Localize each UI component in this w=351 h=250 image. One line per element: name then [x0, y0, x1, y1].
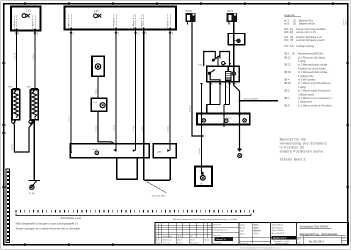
svg-text:Blatt: Blatt	[297, 237, 301, 240]
svg-text:Name: Name	[253, 225, 258, 227]
terminal box X3	[228, 33, 244, 44]
svg-text:Gezeichn.: Gezeichn.	[213, 235, 222, 237]
K1 switch lever	[213, 55, 221, 66]
svg-text:1: 1	[73, 32, 75, 35]
F1 stub	[187, 22, 189, 25]
title block frame	[155, 223, 348, 245]
svg-text:zt 1 Masseschutzte schale :: zt 1 Masseschutzte schale :	[298, 71, 329, 74]
svg-text:zt 7 Masse si and Funktionen: zt 7 Masse si and Funktionen :	[298, 82, 332, 85]
revision table	[155, 223, 348, 245]
svg-text:andere Positionen siehe: andere Positionen siehe	[280, 150, 323, 154]
svg-text:Anlagen Vertrieb: Anlagen Vertrieb	[275, 242, 288, 245]
svg-text:1 u4: 1 u4	[93, 102, 98, 104]
svg-text:H6: H6	[290, 39, 294, 42]
ground terminal G2	[238, 149, 242, 157]
fuse F1	[185, 13, 195, 22]
svg-text:86: 86	[211, 84, 213, 86]
harness separation dotted line	[16, 210, 254, 213]
svg-text:1 E1: 1 E1	[26, 10, 32, 13]
connector X2 box	[153, 144, 176, 158]
motor M1 symbol	[200, 167, 205, 181]
svg-text:0.5 bl: 0.5 bl	[168, 126, 170, 131]
connector strip X4	[197, 114, 250, 125]
svg-text:31 br: 31 br	[32, 21, 35, 26]
svg-text:P14: P14	[284, 39, 289, 42]
control unit A1 box	[11, 7, 41, 31]
pin dots A2	[70, 28, 171, 30]
svg-text:2: 2	[118, 32, 120, 35]
wire F2 down	[233, 22, 235, 72]
svg-text:Ers. für: Ers. für	[177, 243, 183, 245]
svg-text:Änderung: Änderung	[163, 239, 171, 242]
svg-text:5A 30: 5A 30	[186, 10, 193, 13]
svg-text:Norm 21.05.01: Norm 21.05.01	[272, 232, 285, 235]
svg-text:Gepr.: Gepr.	[240, 231, 245, 233]
svg-text:85: 85	[221, 84, 223, 86]
svg-text:Nicht dargestellte Leitungen u: Nicht dargestellte Leitungen u nach Leit…	[16, 222, 78, 226]
wire loop X1 lower	[117, 158, 138, 180]
wire K1 pin5 to ground	[234, 82, 240, 149]
svg-text:4: 4	[146, 32, 148, 35]
svg-text:Schmid: Schmid	[253, 230, 259, 232]
svg-text:0.5 ws: 0.5 ws	[96, 125, 98, 131]
relay feed wire	[201, 83, 203, 167]
svg-text:a: a	[156, 236, 157, 238]
sensor B1 symbol	[95, 64, 100, 69]
svg-text:87: 87	[235, 84, 237, 86]
left terminal strip	[6, 169, 10, 243]
svg-text:Datum: Datum	[205, 239, 211, 242]
svg-text:SB 38: SB 38	[284, 71, 291, 74]
svg-text:Masseleitung MIDI Rot: Masseleitung MIDI Rot	[298, 53, 324, 56]
svg-text:1.5 br: 1.5 br	[141, 126, 143, 131]
svg-text:30: 30	[293, 22, 296, 25]
svg-text:Tag 14.05.01: Tag 14.05.01	[272, 225, 283, 227]
sensor B2 symbol	[100, 103, 105, 108]
svg-text:0.75 sw: 0.75 sw	[14, 53, 16, 60]
heater resistor R1	[12, 88, 20, 120]
svg-text:9b 002 98 0: 9b 002 98 0	[309, 240, 324, 244]
pin leaders A2	[69, 15, 170, 29]
svg-text:SB 21: SB 21	[284, 64, 291, 67]
heater resistor R2	[31, 88, 39, 120]
svg-text:Ersatz Leitungen an s zuletzt: Ersatz Leitungen an s zuletzt Klemmen be…	[16, 227, 81, 231]
svg-text:8.8: 8.8	[290, 45, 294, 48]
svg-text:Schaltplan 9017642A: Schaltplan 9017642A	[300, 225, 329, 229]
ground bolt W1	[28, 180, 40, 189]
svg-text:zt 5 Wb schalte :: zt 5 Wb schalte :	[298, 79, 317, 82]
feed line 30	[240, 100, 279, 102]
svg-text:1 A5: 1 A5	[94, 9, 100, 13]
svg-text:Bearb.: Bearb.	[240, 228, 246, 230]
pin leader A1.1	[14, 16, 16, 29]
relay K1 body	[207, 66, 240, 82]
svg-text:1 Modell abnahme: 1 Modell abnahme	[213, 229, 228, 231]
svg-text:zt 1 Masse si ein Funktionen: zt 1 Masse si ein Funktionen u :	[298, 97, 333, 100]
svg-text:Urspr.: Urspr.	[156, 243, 161, 245]
svg-text:SB 5: SB 5	[284, 90, 290, 93]
svg-text:Zust: Zust	[156, 239, 160, 242]
svg-text:Datum: Datum	[177, 239, 183, 242]
svg-text:zt 1 Masseschutzte schale :: zt 1 Masseschutzte schale :	[298, 64, 329, 67]
sensor B2 box	[91, 98, 106, 111]
svg-text:Huber: Huber	[253, 226, 259, 229]
wire loop K1 pins 1-2	[207, 82, 220, 114]
svg-text:1 adrig: 1 adrig	[298, 60, 306, 63]
svg-text:Bei nicht abweichend ein 2-far: Bei nicht abweichend ein 2-farbige Leitu…	[173, 218, 238, 221]
svg-text:2: 2	[37, 33, 39, 36]
svg-text:u Masse punkt: u Masse punkt	[298, 93, 315, 96]
svg-text:SB 7: SB 7	[284, 97, 290, 100]
X4 terminal circles	[202, 119, 246, 123]
wire A1.2 to R2	[34, 31, 36, 90]
svg-text:30: 30	[226, 87, 228, 89]
svg-text:Kontr. Blatt: Kontr. Blatt	[213, 242, 222, 245]
svg-text:Legende: Legende	[284, 13, 295, 17]
svg-text:1R2: 1R2	[27, 86, 32, 88]
svg-text:1 A5: 1 A5	[157, 150, 162, 153]
motor M1 box	[195, 167, 212, 187]
wire loop K1 pins 3-4	[224, 82, 230, 127]
wire loop R1 bottom	[14, 122, 34, 152]
centre cells	[212, 223, 270, 245]
svg-text:Kargl: Kargl	[253, 232, 258, 235]
wire A2.4 through X1	[143, 30, 145, 158]
svg-text:Gepr 16.05.01: Gepr 16.05.01	[272, 229, 284, 232]
svg-text:AT3: AT3	[284, 45, 289, 48]
svg-text:Norm: Norm	[240, 234, 245, 236]
svg-text:10.05.: 10.05.	[177, 236, 182, 238]
wire A1.1 to R1	[16, 31, 18, 90]
svg-text:1 Bl.: 1 Bl.	[297, 242, 301, 244]
svg-text:Name: Name	[190, 240, 195, 242]
svg-text:WEBASTO: WEBASTO	[273, 237, 287, 240]
K1 coil	[226, 66, 232, 82]
logo bar	[272, 236, 297, 239]
svg-text:30 rt: 30 rt	[68, 22, 71, 26]
lamp E2 symbol	[94, 14, 102, 18]
relay K1 pin labels	[211, 84, 237, 89]
svg-text:1 8: 1 8	[343, 22, 347, 25]
K1 lamp terminal	[232, 72, 235, 82]
fuse F2	[227, 13, 237, 22]
svg-text:0.75 br: 0.75 br	[11, 144, 14, 150]
svg-text:2 adrige Leitung: 2 adrige Leitung	[296, 45, 315, 48]
svg-text:30-9017-642-A-01 F 297x210: 30-9017-642-A-01 F 297x210 Blatt 1 von 1	[240, 246, 282, 249]
svg-text:Werkstoff: Werkstoff	[213, 223, 221, 226]
connector X1 box	[70, 144, 149, 158]
svg-text:0.5 ge: 0.5 ge	[95, 89, 97, 94]
svg-text:0.75 br: 0.75 br	[33, 53, 35, 60]
control unit A2 box	[65, 7, 177, 30]
wire A2.2 to X1	[115, 30, 117, 152]
svg-text:31 M8: 31 M8	[29, 193, 36, 195]
svg-text:zt 7 Masse schalt Funktionen: zt 7 Masse schalt Funktionen :	[298, 90, 332, 93]
lamp E1 symbol	[22, 14, 30, 18]
svg-text:Lampe mit F 1 15: Lampe mit F 1 15	[296, 31, 316, 34]
wire loop X2 lower	[144, 158, 170, 180]
svg-text:SB 4: SB 4	[284, 79, 290, 82]
svg-text:Leuchte Schraube a swth: Leuchte Schraube a swth	[296, 39, 325, 42]
K1 contact	[208, 70, 220, 82]
svg-text:1 adrig: 1 adrig	[298, 86, 306, 89]
svg-text:Batterie Minus: Batterie Minus	[299, 22, 316, 25]
svg-text:SB 9: SB 9	[284, 104, 290, 107]
wire A2.1 to X1	[70, 30, 72, 153]
bracket line	[16, 214, 251, 216]
svg-text:30 2a 5b 5020: 30 2a 5b 5020	[152, 195, 167, 197]
svg-text:0.75 sw: 0.75 sw	[190, 105, 192, 112]
svg-text:1: 1	[18, 33, 20, 36]
svg-text:3: 3	[137, 32, 139, 35]
svg-text:Funktion su Umris schau: Funktion su Umris schau	[298, 67, 326, 70]
wire R2 to ground	[33, 120, 35, 181]
svg-text:M: M	[200, 183, 202, 185]
svg-text:50: 50	[292, 53, 295, 56]
svg-text:SB 1: SB 1	[284, 53, 290, 56]
leader to harness note	[144, 180, 166, 193]
svg-text:0.5 sw: 0.5 sw	[199, 148, 201, 154]
svg-text:1 adrig samt: 1 adrig samt	[298, 101, 312, 104]
svg-text:D+ bl: D+ bl	[168, 21, 170, 26]
sensor B1 box	[92, 56, 104, 76]
svg-text:15 sw ge: 15 sw ge	[114, 18, 116, 26]
svg-text:1 K6: 1 K6	[198, 65, 203, 67]
svg-text:Gruppe 9b: Gruppe 9b	[240, 243, 249, 245]
svg-text:1 u1: 1 u1	[94, 60, 99, 62]
svg-text:1.0 sw: 1.0 sw	[114, 125, 116, 131]
svg-text:Normteil 1a: Normteil 1a	[216, 238, 227, 241]
K1 pin arrows	[200, 83, 235, 86]
svg-text:Vorab gedr.: Vorab gedr.	[163, 236, 173, 238]
svg-text:30 2a 5b 5020: 30 2a 5b 5020	[244, 99, 259, 101]
R2 terminal circle	[29, 118, 36, 124]
X3 terminal circle	[234, 39, 240, 42]
pin leader A1.2	[33, 16, 35, 29]
svg-text:mt 9: mt 9	[284, 22, 289, 25]
F2 stub	[228, 22, 230, 25]
X1 terminal circle	[95, 151, 99, 155]
legend entries	[284, 19, 347, 107]
note text block right	[280, 138, 328, 162]
svg-text:Schnittstelle 1 und: Schnittstelle 1 und	[61, 217, 82, 220]
svg-text:1.0 gr: 1.0 gr	[133, 126, 135, 131]
wire A2.3 to X1	[135, 30, 137, 151]
wire F1 down	[192, 22, 203, 136]
svg-text:5A 15: 5A 15	[227, 10, 234, 13]
dark cell	[215, 237, 234, 241]
svg-text:zt 1 Pluss sin bels Steck :: zt 1 Pluss sin bels Steck :	[298, 56, 327, 59]
svg-text:+b1: +b1	[342, 238, 345, 240]
wire B2 to X1	[98, 111, 116, 144]
svg-text:15 sw: 15 sw	[14, 20, 16, 26]
svg-text:Hu: Hu	[190, 236, 192, 238]
svg-text:s radsig punkt: s radsig punkt	[298, 75, 314, 78]
svg-text:1.5 rt: 1.5 rt	[68, 117, 71, 122]
title section	[297, 223, 349, 245]
relay K1 switch prongs	[204, 52, 230, 67]
svg-text:Ers. durch: Ers. durch	[190, 243, 198, 245]
svg-text:Bearb Hubm: Bearb Hubm	[272, 226, 283, 229]
svg-text:E6: E6	[290, 31, 294, 34]
R1 ground terminal circle	[12, 120, 16, 124]
svg-text:Netzgerät Fzg.- Schnittstelle: Netzgerät Fzg.- Schnittstelle	[300, 232, 338, 236]
svg-text:58 gr: 58 gr	[132, 21, 135, 26]
svg-text:Tabelle Blatt 2: Tabelle Blatt 2	[280, 158, 306, 162]
svg-text:1:1: 1:1	[342, 243, 345, 245]
svg-text:1 u3: 1 u3	[199, 171, 203, 173]
svg-text:zt 1 Masse schalt ein Funktio: zt 1 Masse schalt ein Funktion :	[298, 104, 333, 107]
svg-text:31 br: 31 br	[141, 21, 144, 26]
svg-text:SB 12: SB 12	[284, 56, 291, 59]
svg-text:SB 48: SB 48	[284, 82, 291, 85]
svg-text:Datum: Datum	[240, 224, 246, 227]
svg-text:1R1: 1R1	[8, 86, 13, 88]
svg-text:1E8: 1E8	[284, 31, 289, 34]
svg-text:f 1 ds 6: f 1 ds 6	[163, 243, 169, 245]
wire A2.5 to X2	[169, 30, 171, 151]
wire B1 to B2	[97, 76, 99, 98]
pin dots A1	[16, 29, 37, 31]
svg-text:5: 5	[172, 32, 174, 35]
K1 timer circle	[222, 62, 225, 65]
